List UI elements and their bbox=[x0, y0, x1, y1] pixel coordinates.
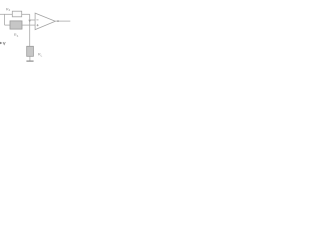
plus input marker bbox=[37, 24, 39, 26]
label v bbox=[3, 42, 5, 45]
resistor R4 bbox=[10, 21, 22, 29]
wire bbox=[22, 13, 30, 15]
op-amp U1 bbox=[35, 13, 55, 30]
wire bbox=[4, 14, 6, 25]
wire bbox=[5, 24, 10, 26]
svg-text:RL: RL bbox=[38, 52, 43, 58]
wire bbox=[29, 56, 31, 61]
input marker arrow bbox=[0, 42, 2, 45]
current arrow bbox=[28, 20, 31, 23]
wire bbox=[0, 13, 12, 15]
resistor R3 bbox=[12, 11, 21, 17]
node dot bbox=[57, 20, 59, 22]
minus input marker bbox=[36, 19, 38, 21]
svg-text:R3: R3 bbox=[6, 6, 11, 12]
svg-text:R4: R4 bbox=[14, 32, 19, 38]
wire node vertical bbox=[29, 14, 31, 46]
ground bbox=[26, 61, 33, 62]
wire bbox=[22, 24, 35, 26]
wire bbox=[30, 19, 35, 21]
resistor RL bbox=[27, 46, 34, 56]
wire output bbox=[55, 20, 70, 22]
